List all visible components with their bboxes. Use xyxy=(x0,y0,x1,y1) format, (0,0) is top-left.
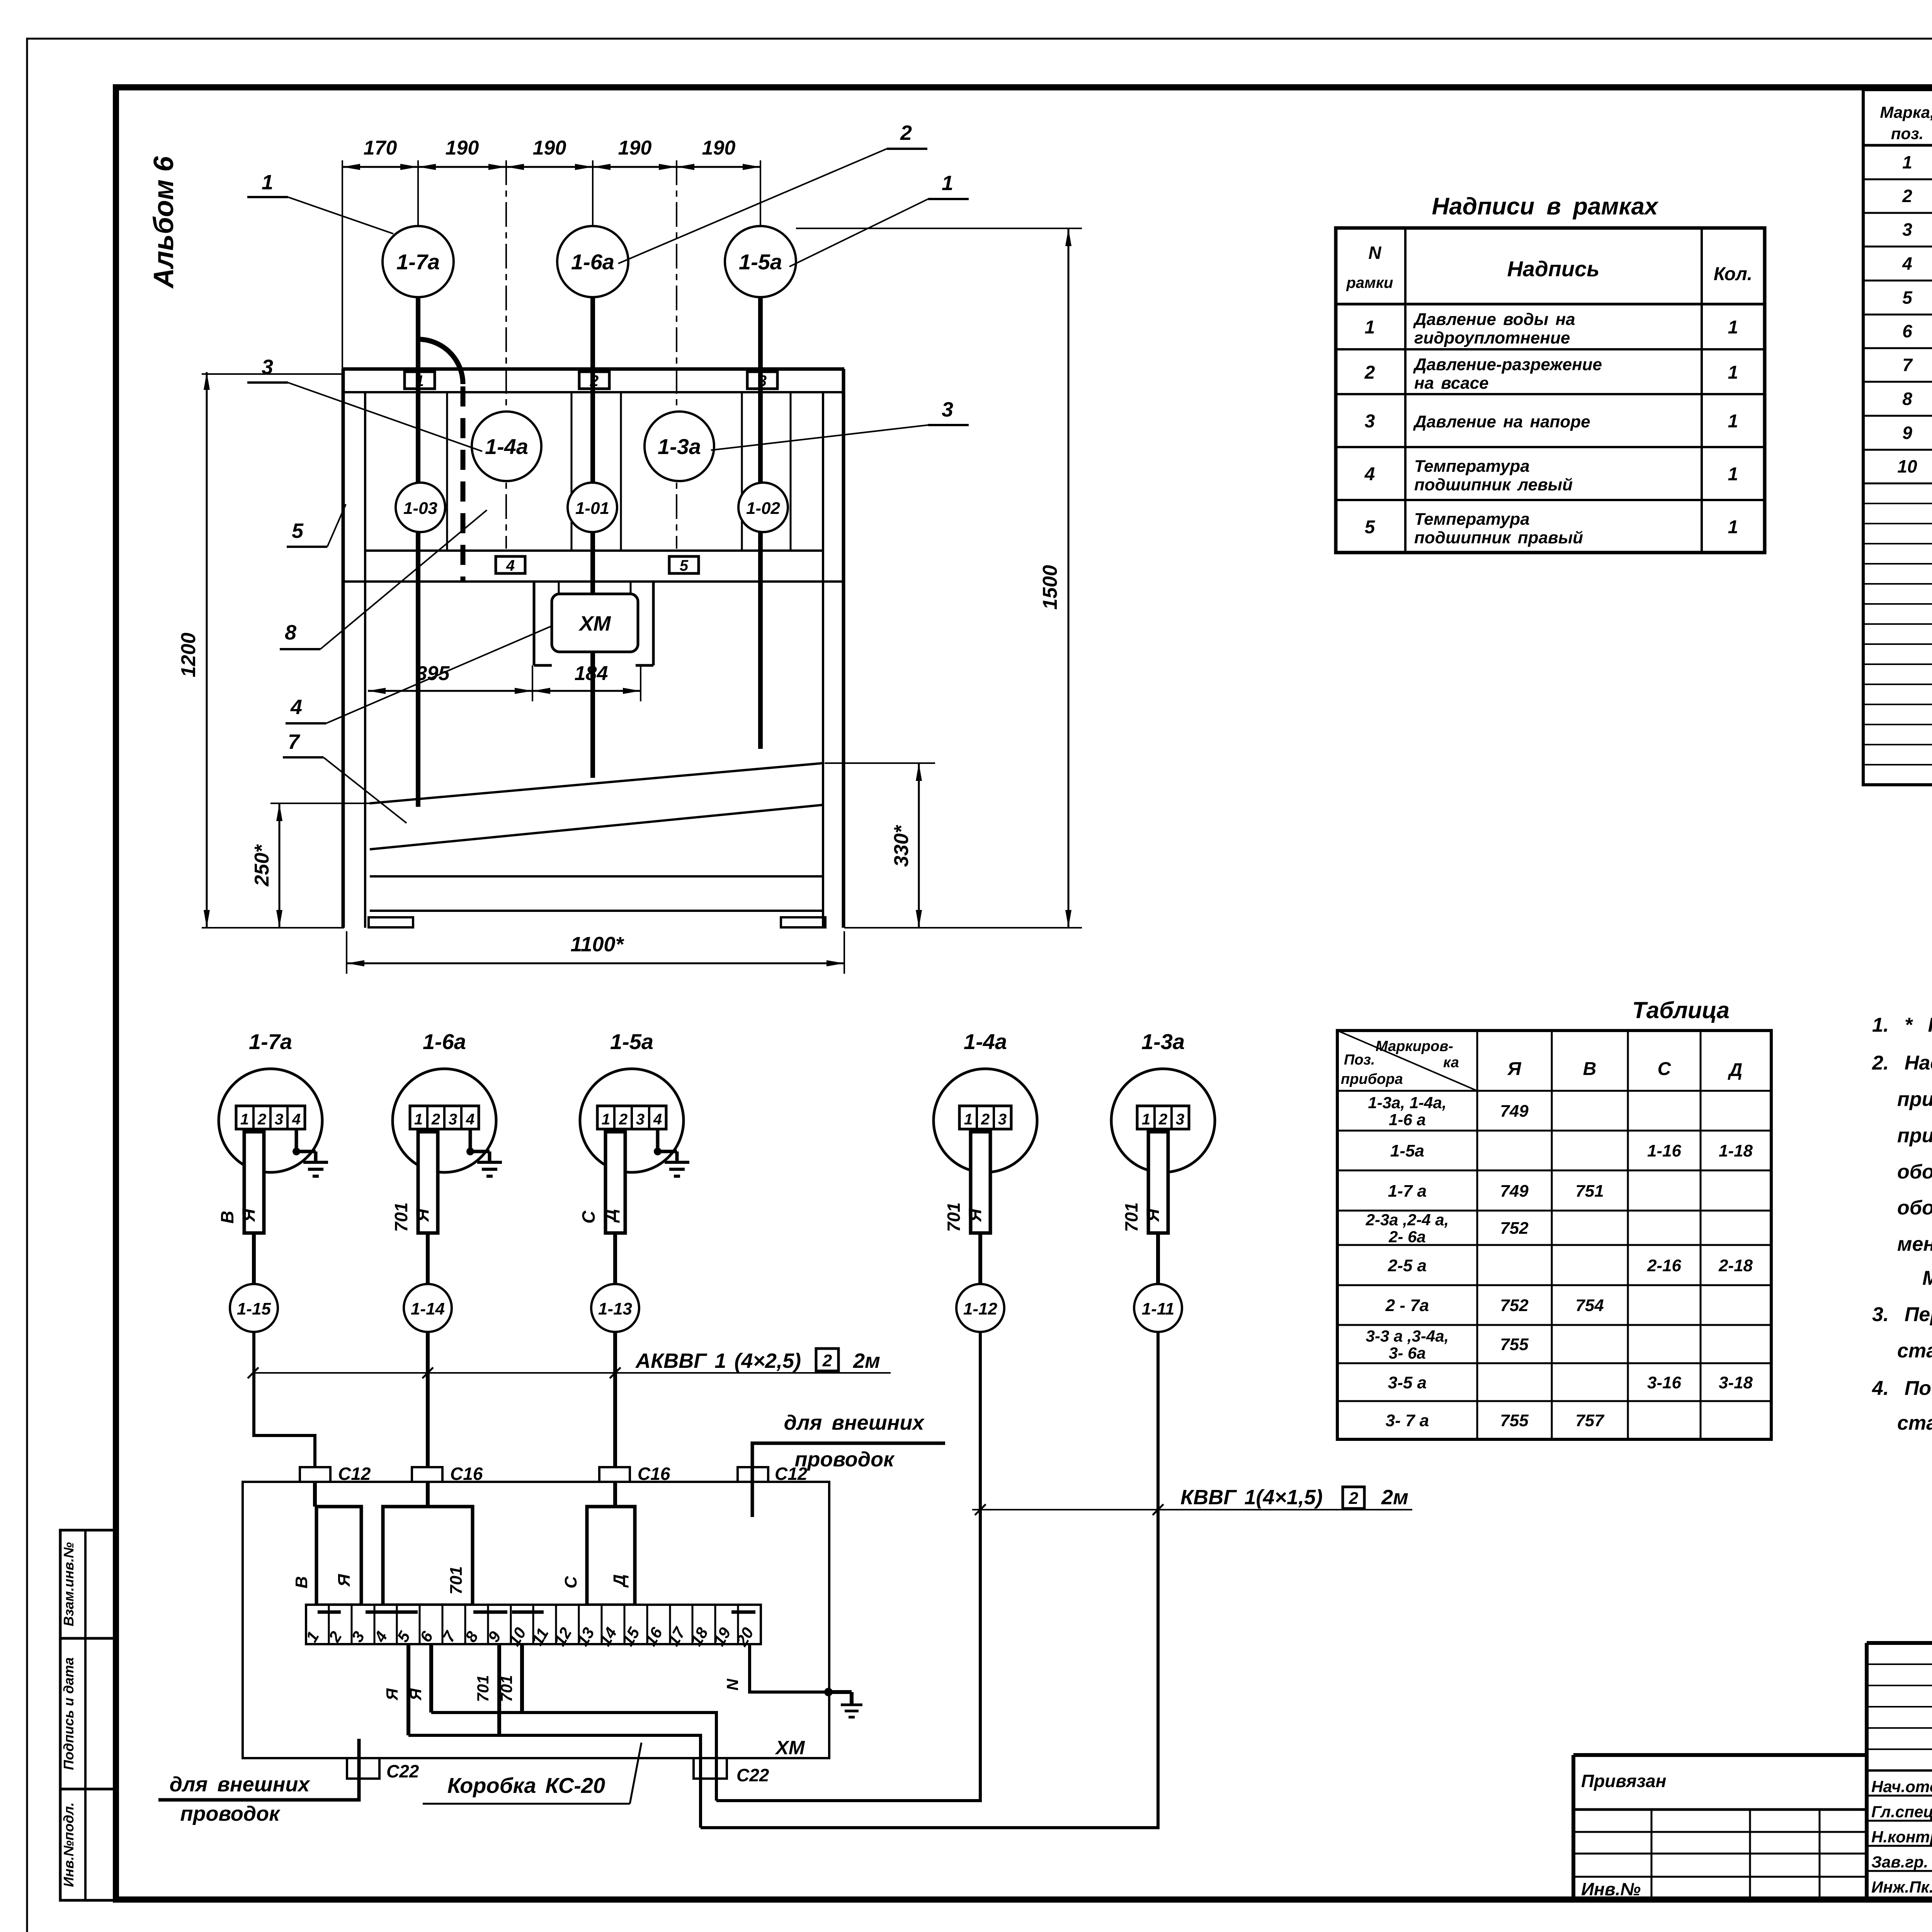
svg-text:Я: Я xyxy=(1143,1208,1163,1222)
svg-text:1-11: 1-11 xyxy=(1142,1299,1175,1318)
impulse tube stem 3 xyxy=(758,296,763,749)
stativ frame structure xyxy=(342,369,844,928)
svg-text:В: В xyxy=(217,1211,237,1223)
ground symbol of 1-6а xyxy=(466,1129,502,1176)
svg-text:С22: С22 xyxy=(736,1765,769,1785)
dim 1500 xyxy=(796,228,1082,928)
svg-text:3: 3 xyxy=(275,1111,283,1128)
svg-text:6: 6 xyxy=(1902,321,1912,341)
ground symbol of 1-7а xyxy=(293,1129,328,1176)
svg-text:С16: С16 xyxy=(638,1464,670,1484)
svg-text:3: 3 xyxy=(942,398,953,421)
svg-text:1-12: 1-12 xyxy=(963,1299,998,1318)
instrument circle 1-3a xyxy=(645,412,714,481)
in-box cable tube C xyxy=(561,1507,635,1605)
pos leader 5 xyxy=(287,504,346,547)
wire to external (bottom) xyxy=(158,1739,359,1800)
svg-text:4: 4 xyxy=(292,1111,301,1128)
svg-text:С: С xyxy=(1658,1059,1672,1079)
svg-text:5: 5 xyxy=(1365,517,1376,537)
svg-text:757: 757 xyxy=(1575,1411,1605,1430)
svg-text:3-3 а ,3-4а,: 3-3 а ,3-4а, xyxy=(1366,1327,1449,1345)
note dlya vneshnih provodok (top) xyxy=(752,1411,945,1517)
svg-text:1: 1 xyxy=(414,1111,423,1128)
svg-text:Я: Я xyxy=(406,1688,425,1701)
svg-text:190: 190 xyxy=(618,137,652,159)
svg-text:Давление-разрежение: Давление-разрежение xyxy=(1413,355,1602,374)
svg-text:1-7а: 1-7а xyxy=(396,250,440,274)
wire from 1-14 to box xyxy=(426,1332,430,1507)
cable circle 1-11 xyxy=(1134,1284,1182,1332)
svg-text:1-16: 1-16 xyxy=(1647,1141,1682,1160)
svg-text:Инж.Пк.: Инж.Пк. xyxy=(1871,1878,1932,1896)
svg-text:обозначающая номер привода,: обозначающая номер привода, соответствен… xyxy=(1897,1197,1932,1219)
svg-text:701: 701 xyxy=(1121,1202,1141,1232)
svg-text:1-01: 1-01 xyxy=(575,499,609,518)
svg-text:2: 2 xyxy=(431,1111,440,1128)
svg-text:1: 1 xyxy=(942,172,953,195)
svg-text:1: 1 xyxy=(1728,317,1738,338)
svg-text:1-4а: 1-4а xyxy=(485,434,528,459)
cable circle 1-15 xyxy=(230,1284,278,1332)
impulse tube of 1-4а xyxy=(944,1129,990,1233)
cable circle 1-12 xyxy=(956,1284,1004,1332)
svg-text:1-3а: 1-3а xyxy=(658,434,701,459)
svg-text:7: 7 xyxy=(1902,355,1913,375)
frame label box 3 xyxy=(747,372,777,389)
svg-text:7: 7 xyxy=(288,730,301,753)
svg-text:1-6а: 1-6а xyxy=(423,1029,466,1054)
svg-text:4: 4 xyxy=(653,1111,662,1128)
connector C22 (2) xyxy=(694,1758,769,1785)
svg-text:1: 1 xyxy=(1728,517,1738,537)
frame label box 5 xyxy=(669,556,699,574)
instrument circle 1-6a xyxy=(557,226,628,297)
svg-text:190: 190 xyxy=(446,137,479,159)
svg-text:3: 3 xyxy=(262,355,273,379)
note dlya vneshnih provodok (bottom) xyxy=(170,1773,311,1825)
svg-text:701: 701 xyxy=(391,1202,411,1232)
svg-text:подшипник левый: подшипник левый xyxy=(1414,475,1573,494)
svg-text:С: С xyxy=(578,1211,599,1224)
dim 1200 xyxy=(177,372,344,928)
svg-text:Я: Я xyxy=(238,1208,259,1222)
svg-text:701: 701 xyxy=(474,1675,492,1702)
tablitsa title xyxy=(1632,997,1730,1023)
svg-text:701: 701 xyxy=(447,1566,466,1594)
svg-text:330*: 330* xyxy=(890,825,913,867)
svg-text:Д: Д xyxy=(1728,1060,1743,1080)
schematic instrument 1-6а xyxy=(393,1029,496,1172)
svg-text:752: 752 xyxy=(1500,1219,1529,1238)
svg-text:749: 749 xyxy=(1500,1102,1529,1121)
svg-text:С22: С22 xyxy=(386,1761,419,1781)
wire run lower (cells 5,9) xyxy=(408,1735,701,1828)
svg-text:2: 2 xyxy=(1158,1111,1167,1128)
pos leader 4 xyxy=(286,626,552,723)
dim 395 xyxy=(368,662,532,694)
svg-text:Надписи в рамках: Надписи в рамках xyxy=(1432,193,1659,220)
svg-text:1-3а, 1-4а,: 1-3а, 1-4а, xyxy=(1368,1094,1446,1112)
notes text xyxy=(1872,1014,1932,1434)
svg-text:701: 701 xyxy=(497,1675,515,1702)
impulse tube of 1-7а xyxy=(217,1129,264,1233)
frame circle 1-03 xyxy=(396,483,445,532)
margin label Album 6 xyxy=(148,156,179,289)
svg-text:2м: 2м xyxy=(853,1349,880,1372)
svg-text:для внешних: для внешних xyxy=(784,1411,925,1434)
wire from 1-11 down xyxy=(701,1332,1158,1828)
svg-text:ХМ: ХМ xyxy=(775,1737,805,1759)
svg-text:1-5а: 1-5а xyxy=(739,250,782,274)
svg-text:3: 3 xyxy=(998,1111,1007,1128)
terminal strip 1-20 xyxy=(302,1605,761,1650)
frame label box 2 xyxy=(579,372,609,389)
svg-text:гидроуплотнение: гидроуплотнение xyxy=(1414,328,1570,347)
svg-text:3: 3 xyxy=(1365,411,1375,432)
svg-text:2: 2 xyxy=(257,1111,266,1128)
svg-text:1-4а: 1-4а xyxy=(964,1029,1007,1054)
instrument circle 1-7a xyxy=(383,226,454,297)
svg-text:1: 1 xyxy=(1728,362,1738,383)
svg-text:2: 2 xyxy=(1364,362,1375,383)
svg-text:4: 4 xyxy=(466,1111,474,1128)
svg-text:3: 3 xyxy=(1176,1111,1184,1128)
svg-text:754: 754 xyxy=(1575,1296,1604,1315)
svg-text:5: 5 xyxy=(1902,287,1913,308)
svg-text:Температура: Температура xyxy=(1414,510,1530,529)
cable marker line KVVG xyxy=(972,1486,1412,1515)
svg-text:755: 755 xyxy=(1500,1335,1529,1354)
svg-text:3- 6а: 3- 6а xyxy=(1389,1344,1426,1362)
svg-text:ХМ: ХМ xyxy=(578,612,611,635)
frame label box 1 xyxy=(405,372,435,389)
collector slant line 1 xyxy=(370,763,823,803)
svg-text:проводок: проводок xyxy=(180,1802,281,1825)
ground symbol at N xyxy=(841,1705,862,1717)
svg-text:для внешних: для внешних xyxy=(170,1773,311,1796)
svg-text:1: 1 xyxy=(1365,317,1375,338)
instrument circle 1-5a xyxy=(725,226,796,297)
wire from 1-13 to box xyxy=(613,1332,617,1507)
svg-text:Д: Д xyxy=(600,1209,620,1223)
frame circle 1-02 xyxy=(738,483,788,532)
svg-text:2м: 2м xyxy=(1381,1486,1408,1509)
svg-text:2: 2 xyxy=(1349,1489,1359,1508)
svg-text:5: 5 xyxy=(680,557,689,574)
svg-text:2: 2 xyxy=(981,1111,990,1128)
svg-text:3: 3 xyxy=(636,1111,645,1128)
svg-text:8: 8 xyxy=(285,621,296,644)
wires from terminals 5,6,9,10 xyxy=(383,1644,522,1735)
svg-text:1-7а: 1-7а xyxy=(249,1029,292,1054)
XM label in box xyxy=(775,1737,805,1759)
thick dashed cable xyxy=(461,386,466,583)
svg-text:АКВВГ 1 (4×2,5): АКВВГ 1 (4×2,5) xyxy=(635,1349,801,1372)
svg-text:поз.: поз. xyxy=(1891,124,1923,143)
svg-text:3- 7 а: 3- 7 а xyxy=(1386,1411,1429,1430)
svg-text:1-3а: 1-3а xyxy=(1141,1029,1185,1054)
svg-text:Нач.отд.: Нач.отд. xyxy=(1871,1777,1932,1796)
connector C22 (1) xyxy=(347,1758,419,1781)
svg-text:подшипник правый: подшипник правый xyxy=(1414,528,1583,547)
svg-text:1500: 1500 xyxy=(1039,565,1061,610)
svg-text:1: 1 xyxy=(1142,1111,1150,1128)
svg-text:Я: Я xyxy=(965,1208,985,1222)
wire 1-3а to circle xyxy=(1156,1233,1160,1284)
svg-text:752: 752 xyxy=(1500,1296,1529,1315)
svg-text:рамки: рамки xyxy=(1346,274,1393,291)
svg-text:2: 2 xyxy=(900,121,912,145)
pos leader 3 left xyxy=(247,355,482,451)
svg-text:статив.: статив. xyxy=(1897,1340,1932,1362)
svg-text:2: 2 xyxy=(619,1111,628,1128)
svg-text:1: 1 xyxy=(1902,152,1912,172)
svg-text:Зав.гр.: Зав.гр. xyxy=(1871,1853,1928,1871)
connector C16 (2) xyxy=(412,1464,483,1484)
schematic instrument 1-5а xyxy=(580,1029,684,1172)
svg-text:Коробка КС-20: Коробка КС-20 xyxy=(447,1773,605,1798)
svg-text:1: 1 xyxy=(602,1111,610,1128)
cable marker line AKVVG xyxy=(248,1349,891,1378)
svg-text:приборов насоса 1. Для насо: приборов насоса 1. Для насосов 2 и 3 ста… xyxy=(1897,1088,1932,1111)
svg-text:10: 10 xyxy=(1897,456,1917,476)
svg-text:3: 3 xyxy=(758,372,767,389)
svg-text:701: 701 xyxy=(944,1202,964,1232)
svg-text:Альбом 6: Альбом 6 xyxy=(148,156,179,289)
svg-text:2 - 7а: 2 - 7а xyxy=(1385,1296,1429,1315)
svg-text:3: 3 xyxy=(1902,219,1912,240)
svg-text:1: 1 xyxy=(415,372,424,389)
pos leader 1 right xyxy=(789,172,969,267)
svg-text:Кол.: Кол. xyxy=(1714,264,1752,284)
in-box cable tube B xyxy=(383,1507,473,1605)
side stamp boxes xyxy=(60,1530,117,1900)
svg-text:1-5а: 1-5а xyxy=(610,1029,653,1054)
pos leader 2 xyxy=(618,121,927,264)
svg-text:Я: Я xyxy=(383,1688,401,1701)
axis dash-dot line A xyxy=(505,160,507,549)
svg-text:2-5 а: 2-5 а xyxy=(1388,1256,1427,1275)
svg-text:С: С xyxy=(561,1576,580,1588)
svg-text:1-6 а: 1-6 а xyxy=(1389,1111,1426,1129)
svg-text:2: 2 xyxy=(822,1351,832,1370)
frame label box 4 xyxy=(496,556,525,574)
wire from 1-12 down xyxy=(716,1332,980,1801)
svg-text:N: N xyxy=(1368,243,1381,263)
ground symbol of 1-5а xyxy=(654,1129,689,1176)
title block left extension xyxy=(1573,1755,1867,1900)
svg-text:Надпись: Надпись xyxy=(1507,257,1599,281)
svg-text:меняется на 2 и 3.: меняется на 2 и 3. xyxy=(1897,1233,1932,1255)
svg-text:Я: Я xyxy=(335,1574,354,1587)
svg-text:1-03: 1-03 xyxy=(403,499,437,518)
svg-text:С12: С12 xyxy=(338,1464,371,1484)
svg-text:4: 4 xyxy=(506,557,515,574)
title block signature table xyxy=(1867,1643,1932,1900)
svg-text:2- 6а: 2- 6а xyxy=(1388,1228,1426,1246)
tablitsa table xyxy=(1337,1031,1771,1439)
svg-text:Я: Я xyxy=(412,1208,432,1222)
terminal jumper bars xyxy=(318,1611,755,1614)
svg-text:3-18: 3-18 xyxy=(1719,1373,1753,1392)
svg-text:Инв.№подл.: Инв.№подл. xyxy=(61,1802,77,1887)
svg-text:2. Настоящий чертеж выполнен: 2. Настоящий чертеж выполнен для статива xyxy=(1872,1052,1932,1074)
connector C12 (4) xyxy=(738,1464,808,1484)
svg-text:Инв.№: Инв.№ xyxy=(1581,1879,1641,1899)
axis dash-dot line B xyxy=(676,160,677,549)
svg-text:1-14: 1-14 xyxy=(411,1299,445,1318)
svg-text:749: 749 xyxy=(1500,1182,1529,1201)
nadpisi title xyxy=(1432,193,1659,220)
pos leader 3 right xyxy=(711,398,969,450)
svg-text:190: 190 xyxy=(533,137,566,159)
svg-text:Давление воды на: Давление воды на xyxy=(1413,310,1575,329)
instrument circle 1-4a xyxy=(472,412,541,481)
svg-text:на всасе: на всасе xyxy=(1414,374,1489,393)
connector C12 (1) xyxy=(300,1464,371,1484)
cable circle 1-13 xyxy=(591,1284,639,1332)
svg-text:1: 1 xyxy=(262,171,273,194)
wire 1-5а to circle xyxy=(613,1233,617,1284)
impulse tube of 1-5а xyxy=(578,1129,625,1233)
pos leader 7 xyxy=(283,730,406,823)
svg-text:обозначений приборов, импуль: обозначений приборов, импульсных труб, к… xyxy=(1897,1161,1932,1183)
svg-text:ка: ка xyxy=(1443,1054,1459,1071)
svg-text:В: В xyxy=(1583,1059,1597,1079)
svg-text:С16: С16 xyxy=(450,1464,483,1484)
svg-text:Гл.спец.: Гл.спец. xyxy=(1871,1803,1932,1821)
connector C16 (3) xyxy=(599,1464,670,1484)
wire run upper (cells 6,10) xyxy=(431,1713,716,1801)
dim 330* xyxy=(825,763,935,928)
svg-text:3: 3 xyxy=(449,1111,457,1128)
pos leader 8 xyxy=(280,510,487,649)
svg-text:2-18: 2-18 xyxy=(1718,1256,1753,1275)
wire 1-4а to circle xyxy=(978,1233,982,1284)
svg-text:4: 4 xyxy=(290,696,302,719)
frame foot right xyxy=(781,917,825,927)
svg-text:250*: 250* xyxy=(251,844,273,887)
wire 1-6а to circle xyxy=(426,1233,430,1284)
svg-text:Таблица: Таблица xyxy=(1632,997,1730,1023)
svg-text:2-3а ,2-4 а,: 2-3а ,2-4 а, xyxy=(1366,1211,1449,1229)
svg-text:Температура: Температура xyxy=(1414,457,1530,476)
svg-text:Привязан: Привязан xyxy=(1581,1771,1666,1791)
svg-text:170: 170 xyxy=(364,137,397,159)
impulse tube of 1-3а xyxy=(1121,1129,1168,1233)
cable arc from stem 1 xyxy=(418,339,463,384)
svg-text:4: 4 xyxy=(1902,253,1912,274)
impulse tube stem 1 xyxy=(416,296,420,807)
svg-text:8: 8 xyxy=(1902,389,1912,409)
svg-text:Маркиров-: Маркиров- xyxy=(1376,1038,1453,1054)
schematic instrument 1-4а xyxy=(934,1029,1037,1172)
wire N from terminal 20 xyxy=(723,1644,852,1705)
svg-text:прибора: прибора xyxy=(1341,1071,1403,1087)
svg-text:1: 1 xyxy=(240,1111,249,1128)
svg-text:184: 184 xyxy=(575,662,608,685)
in-box cable tube A xyxy=(292,1507,361,1605)
svg-text:1-13: 1-13 xyxy=(598,1299,632,1318)
svg-text:3-16: 3-16 xyxy=(1647,1373,1682,1392)
svg-text:Подпись и дата: Подпись и дата xyxy=(61,1657,77,1770)
svg-text:1-7 а: 1-7 а xyxy=(1388,1182,1427,1201)
pos leader 1 left xyxy=(247,171,393,234)
svg-text:Марка,: Марка, xyxy=(1880,103,1932,121)
svg-text:Я: Я xyxy=(1507,1059,1522,1079)
dim 1100* xyxy=(347,931,844,974)
svg-text:3-5 а: 3-5 а xyxy=(1388,1373,1427,1392)
dimension line 170/190x4 xyxy=(342,137,760,371)
svg-text:приборов аналогичны. Цифра: приборов аналогичны. Цифра 1 в левой час… xyxy=(1897,1124,1932,1147)
svg-text:2: 2 xyxy=(1902,186,1912,206)
svg-text:1-5а: 1-5а xyxy=(1390,1141,1424,1160)
label Korobka KS-20 xyxy=(423,1743,641,1804)
svg-text:1-6а: 1-6а xyxy=(571,250,614,274)
impulse tube stem 2 xyxy=(590,296,595,778)
svg-text:1: 1 xyxy=(1728,464,1738,485)
parts table xyxy=(1863,90,1932,785)
XM connector box on frame xyxy=(534,582,653,665)
dim 250* xyxy=(251,803,370,928)
svg-text:Поз.: Поз. xyxy=(1344,1052,1375,1068)
svg-text:2: 2 xyxy=(590,372,599,389)
svg-text:С12: С12 xyxy=(775,1464,808,1484)
svg-text:751: 751 xyxy=(1575,1182,1604,1201)
svg-text:4: 4 xyxy=(1364,464,1375,485)
svg-text:1: 1 xyxy=(1728,411,1738,432)
svg-text:1-15: 1-15 xyxy=(237,1299,271,1318)
svg-text:1-02: 1-02 xyxy=(746,499,781,518)
svg-text:5: 5 xyxy=(292,519,304,543)
svg-text:1. * Размеры для справок.: 1. * Размеры для справок. xyxy=(1872,1014,1932,1036)
wire 1-7а to circle xyxy=(252,1233,256,1284)
svg-text:Маркировки цепей приведены: Маркировки цепей приведены в таблице. xyxy=(1922,1267,1932,1289)
svg-text:В: В xyxy=(292,1576,311,1588)
svg-text:Н.контр.: Н.контр. xyxy=(1871,1828,1932,1846)
svg-text:755: 755 xyxy=(1500,1411,1529,1430)
svg-text:проводок: проводок xyxy=(795,1448,895,1471)
cable circle 1-14 xyxy=(404,1284,452,1332)
frame foot left xyxy=(369,917,413,927)
svg-text:КВВГ 1(4×1,5): КВВГ 1(4×1,5) xyxy=(1180,1486,1323,1509)
svg-text:9: 9 xyxy=(1902,423,1912,443)
svg-text:1: 1 xyxy=(964,1111,973,1128)
svg-text:N: N xyxy=(723,1678,742,1690)
svg-text:Д: Д xyxy=(610,1574,629,1588)
svg-text:3. Перечень элементов привед: 3. Перечень элементов приведен на один xyxy=(1872,1303,1932,1326)
svg-text:1-18: 1-18 xyxy=(1719,1141,1753,1160)
svg-text:Давление на напоре: Давление на напоре xyxy=(1413,412,1590,431)
impulse tube of 1-6а xyxy=(391,1129,438,1233)
svg-text:2-16: 2-16 xyxy=(1647,1256,1682,1275)
box KS-20 outline xyxy=(243,1482,829,1758)
schematic instrument 1-3а xyxy=(1111,1029,1215,1172)
svg-text:395: 395 xyxy=(416,662,450,685)
schematic instrument 1-7а xyxy=(219,1029,322,1172)
wire from 1-15 to box xyxy=(254,1332,315,1507)
svg-text:1100*: 1100* xyxy=(570,933,624,956)
collector slant line 2 xyxy=(370,805,823,849)
nadpisi table xyxy=(1336,228,1765,553)
svg-text:статива: статива xyxy=(1897,1412,1932,1434)
frame circle 1-01 xyxy=(568,483,617,532)
svg-text:Взам.инв.№: Взам.инв.№ xyxy=(61,1542,77,1626)
svg-text:1200: 1200 xyxy=(177,633,200,677)
svg-text:190: 190 xyxy=(702,137,736,159)
svg-text:4. По данному чертежу изгот: 4. По данному чертежу изготовить три xyxy=(1872,1377,1932,1400)
